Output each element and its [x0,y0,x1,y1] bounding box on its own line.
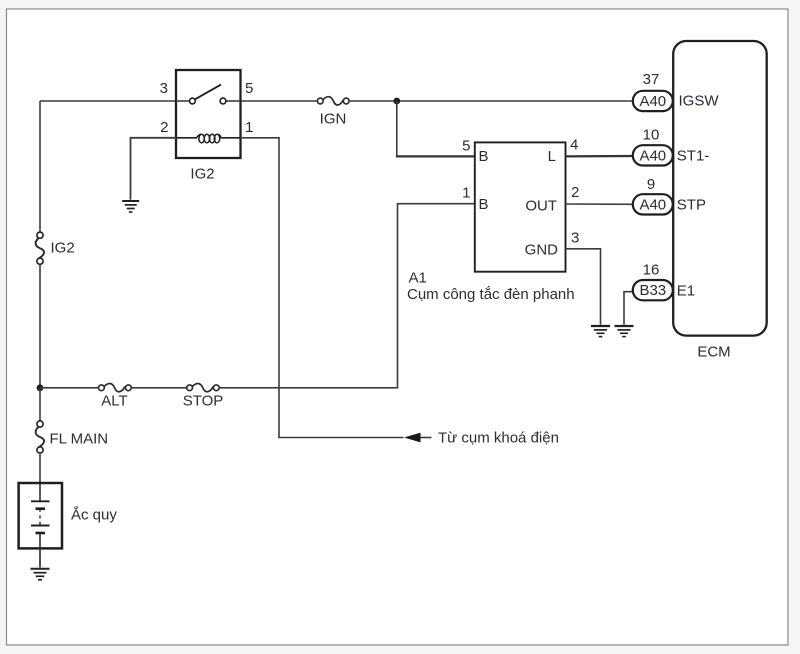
svg-text:3: 3 [571,230,579,247]
svg-text:A40: A40 [639,93,666,110]
ground (A1 GND) [591,326,610,337]
relay IG2 box [176,70,241,158]
svg-text:5: 5 [245,80,253,97]
arrow head (from ignition switch assembly) [404,433,421,443]
connector B33 pin 16 (E1) [633,280,673,300]
connector A40 pin 10 (ST1-) [633,145,673,165]
svg-text:Ắc quy: Ắc quy [71,506,117,524]
relay switch blade [195,85,221,100]
relay coil [176,134,241,143]
fuse IG2 (vertical) [36,232,44,264]
svg-text:B: B [479,148,489,165]
battery box [19,483,62,548]
wire: left bus vertical x=40 (junction to FL MAIN fuse) [39,388,41,421]
svg-text:1: 1 [462,185,470,202]
wire: STOP fuse to riser corner, up to A1 pin 1 [219,204,475,388]
wire: arrow stub [421,437,432,439]
wire: between ALT and STOP fuses [131,387,187,389]
svg-text:10: 10 [643,127,660,144]
svg-text:9: 9 [647,176,655,193]
svg-text:4: 4 [570,137,578,154]
connector A40 pin 37 (IGSW) [633,91,673,111]
A1 brake light switch box [475,142,566,271]
svg-text:5: 5 [462,138,470,155]
wire: A1 pin 2 (OUT) to ECM STP connector [566,203,634,205]
svg-text:3: 3 [160,80,168,97]
ground (relay coil) [122,201,139,212]
svg-text:STP: STP [677,197,706,214]
svg-text:GND: GND [525,242,559,259]
svg-text:B: B [479,196,489,213]
svg-text:IG2: IG2 [51,240,75,257]
wire: B33 connector to ground [624,292,633,325]
ground (E1/B33) [615,326,634,337]
wire: top ignition feed y=101 from left bus to IGN fuse [40,100,318,102]
svg-text:A40: A40 [639,147,666,164]
svg-text:IGSW: IGSW [679,93,720,110]
ECM box [673,41,767,336]
wire: junction down then right to A1 pin 5 (thick) [396,101,398,156]
connector A40 pin 9 (STP) [633,194,673,214]
svg-text:STOP: STOP [183,393,224,410]
wire: from IGN fuse to ECM IGSW connector [349,100,633,102]
svg-text:2: 2 [160,119,168,136]
svg-text:ECM: ECM [697,344,730,361]
junction node on ignition feed [393,98,400,105]
fuse STOP [187,383,220,391]
svg-text:Từ cụm khoá điện: Từ cụm khoá điện [438,430,559,447]
svg-text:L: L [548,148,556,165]
svg-text:1: 1 [245,119,253,136]
svg-text:ALT: ALT [101,393,127,410]
wire: A1 pin 4 (L) to ECM ST1- connector (thick) [566,155,634,158]
svg-text:IGN: IGN [320,111,347,128]
wire: relay switch stubs inside [176,100,190,102]
junction node battery bus / ALT wire [37,384,44,391]
svg-text:B33: B33 [639,282,666,299]
svg-text:OUT: OUT [525,198,557,215]
svg-text:A40: A40 [639,196,666,213]
wire: ALT/STOP feed y=387.8 [40,387,99,389]
wire: left bus vertical x=40 (IG2 fuse to ALT junction) [39,264,41,388]
fuse ALT [99,383,132,391]
svg-text:16: 16 [643,262,660,279]
battery symbol [31,483,50,548]
svg-text:ST1-: ST1- [677,148,710,165]
fuse IGN [317,97,349,105]
svg-text:IG2: IG2 [190,166,214,183]
relay switch contacts [190,98,196,104]
wire: A1 pin 3 (GND) right then down to ground [566,249,601,325]
svg-text:37: 37 [643,71,660,88]
fuse FL MAIN (vertical) [36,421,44,453]
svg-text:Cụm công tắc đèn phanh: Cụm công tắc đèn phanh [407,286,575,303]
svg-text:A1: A1 [409,270,427,287]
wire: left bus from FL MAIN to battery [39,453,41,483]
wire: battery negative to ground [39,548,41,567]
wire: relay pin 1 right, down, to arrow (from ignition switch) [241,138,404,438]
svg-text:E1: E1 [677,283,695,300]
svg-text:2: 2 [571,184,579,201]
ground (battery) [31,569,50,580]
wire: relay pin 2 to ground [131,138,177,200]
wire: left bus vertical x=40 (top to IG2 fuse) [39,101,41,232]
svg-text:FL MAIN: FL MAIN [50,431,109,448]
